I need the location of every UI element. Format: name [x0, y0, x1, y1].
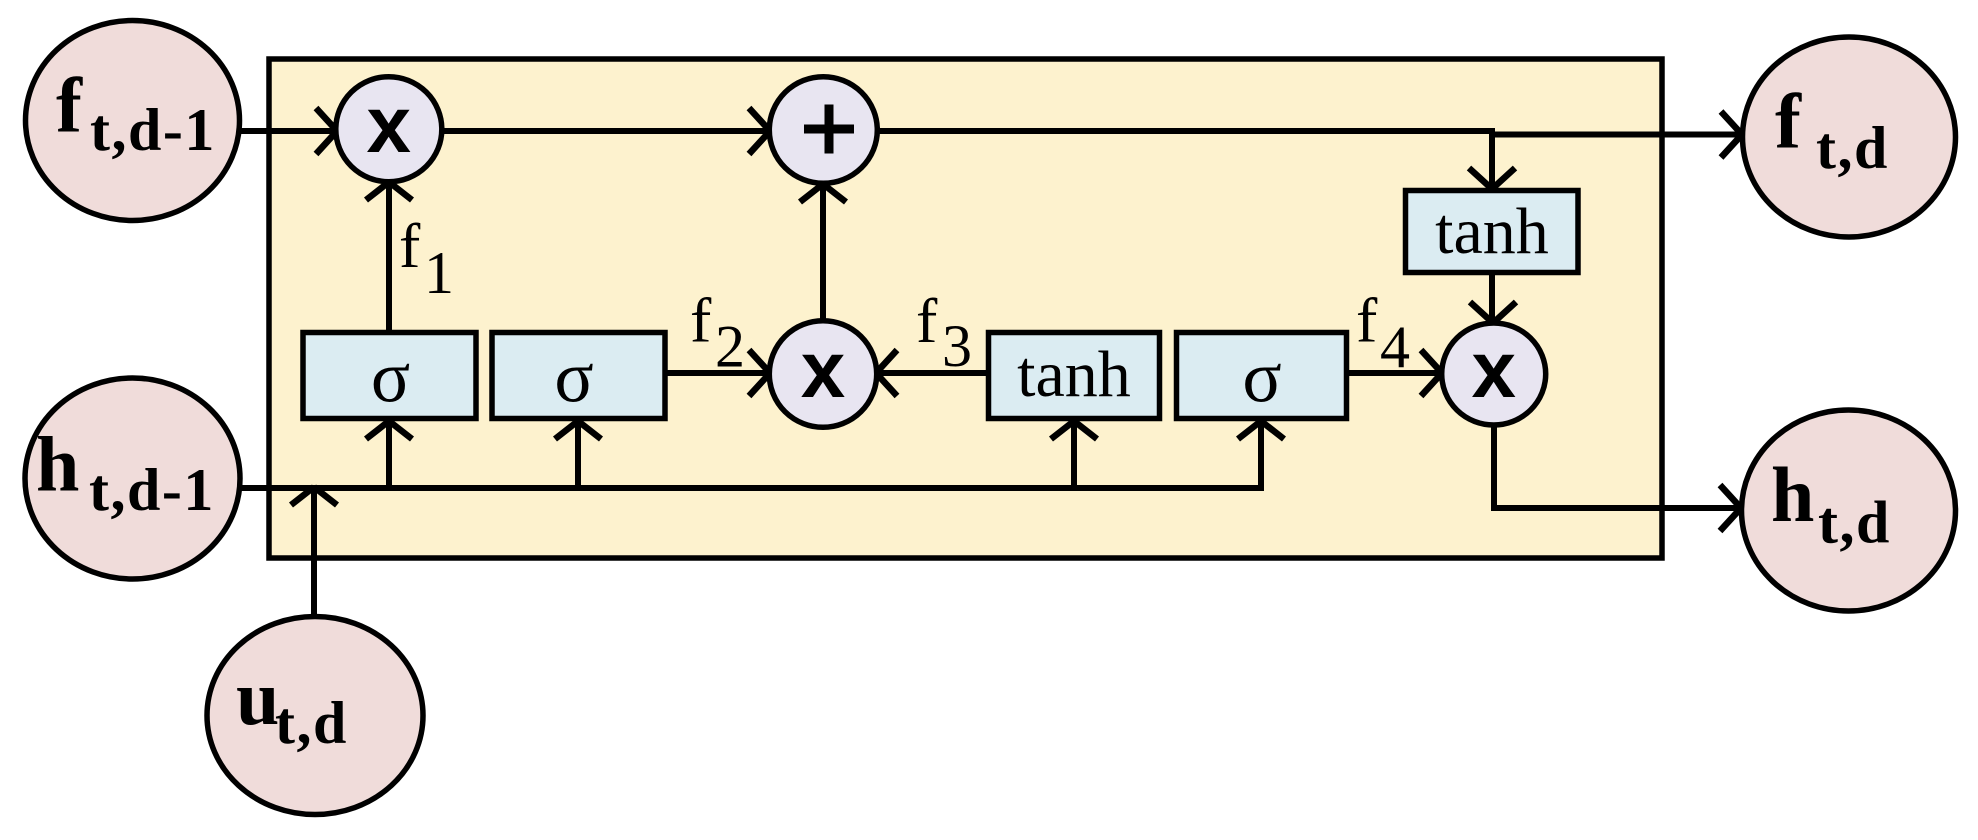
- arrowhead into X2 left: [749, 350, 770, 396]
- svg-text:tanh: tanh: [1017, 338, 1131, 411]
- svg-text:t,d: t,d: [275, 690, 348, 756]
- wire f2 sigma2 to X2: [667, 370, 767, 376]
- svg-text:t,d-1: t,d-1: [90, 97, 216, 163]
- wire E1 to X1: [239, 128, 334, 134]
- svg-text:f: f: [1775, 78, 1802, 165]
- node h_{t,d-1}: [25, 378, 240, 579]
- arrowhead into X3 left: [1421, 350, 1442, 396]
- svg-text:4: 4: [1380, 314, 1410, 380]
- wire plus to E4: [877, 128, 1495, 134]
- multiplier X1: [336, 77, 442, 182]
- arrowhead into plus left: [749, 108, 770, 154]
- arrowhead into X1 bottom: [366, 182, 412, 200]
- tanh box 2: [1406, 191, 1579, 273]
- arrowhead into sigma3 bottom: [1238, 421, 1284, 439]
- wire X2 up to plus: [820, 187, 826, 320]
- cell body box: [269, 59, 1662, 558]
- svg-text:σ: σ: [1242, 337, 1281, 418]
- node f_{t,d}: [1743, 37, 1956, 237]
- node u_{t,d}: [207, 617, 423, 815]
- arrowhead into X1 left: [316, 108, 337, 154]
- svg-text:f: f: [56, 61, 83, 148]
- multiplier X2: [769, 321, 876, 428]
- svg-text:1: 1: [424, 240, 454, 306]
- arrowhead into plus bottom: [800, 184, 846, 202]
- svg-text:x: x: [367, 80, 412, 169]
- arrowhead into X2 right: [876, 350, 897, 396]
- wire f3 tanh1 to X2: [879, 370, 986, 376]
- svg-text:x: x: [1471, 325, 1516, 414]
- arrowhead into E5: [1720, 485, 1741, 531]
- wire tanh2 to X3: [1489, 275, 1495, 320]
- svg-text:2: 2: [715, 314, 745, 380]
- adder plus: [769, 77, 877, 184]
- node f_{t,d-1}: [26, 21, 240, 221]
- svg-text:u: u: [236, 654, 279, 741]
- wire h-line up into tanh1: [1071, 424, 1077, 488]
- plus glyph: [804, 105, 854, 154]
- arrowhead into tanh2 top: [1469, 168, 1515, 189]
- svg-text:f: f: [399, 210, 421, 281]
- node h_{t,d}: [1742, 410, 1956, 611]
- tanh box 1: [989, 333, 1160, 419]
- wire h-line up into sigma2: [575, 424, 581, 488]
- arrowhead into E4: [1721, 112, 1742, 158]
- svg-text:tanh: tanh: [1435, 195, 1549, 268]
- svg-text:t,d: t,d: [1816, 115, 1889, 181]
- wire down to tanh2: [1489, 128, 1495, 186]
- svg-text:h: h: [36, 420, 79, 507]
- svg-text:f: f: [1356, 285, 1378, 356]
- svg-text:σ: σ: [554, 337, 593, 418]
- arrowhead u into h-line: [291, 487, 337, 505]
- svg-text:f: f: [916, 285, 938, 356]
- svg-text:f: f: [690, 285, 712, 356]
- sigma box 2: [492, 333, 665, 419]
- svg-text:x: x: [801, 325, 846, 414]
- svg-text:σ: σ: [371, 337, 410, 418]
- wire h-line from E2 across: [240, 424, 1261, 488]
- multiplier X3: [1442, 323, 1546, 425]
- svg-text:3: 3: [942, 313, 972, 379]
- sigma box 1: [303, 333, 476, 419]
- wire X3 down and right to E5: [1494, 425, 1738, 508]
- wire u up to h-line: [311, 490, 317, 616]
- wire f1 sigma1 to X1: [386, 185, 392, 330]
- sigma box 3: [1177, 333, 1347, 419]
- svg-text:t,d: t,d: [1818, 490, 1891, 556]
- svg-text:h: h: [1771, 451, 1814, 538]
- wire h-line up into sigma1: [386, 424, 392, 488]
- arrowhead into tanh1 bottom: [1051, 421, 1097, 439]
- arrowhead into X3 top: [1470, 302, 1516, 323]
- svg-text:t,d-1: t,d-1: [89, 457, 215, 523]
- arrowhead into sigma2 bottom: [555, 421, 601, 439]
- wire f4 sigma3 to X3: [1349, 370, 1439, 376]
- wire X1 to plus: [442, 128, 768, 134]
- arrowhead into sigma1 bottom: [366, 421, 412, 439]
